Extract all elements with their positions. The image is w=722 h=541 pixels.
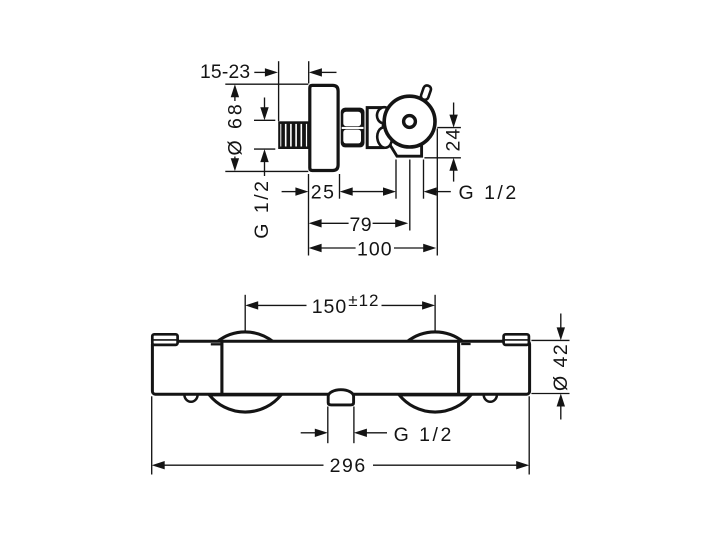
escutcheon (wall plate, side view) [310,85,338,170]
dimension 296 [151,396,153,474]
svg-text:100: 100 [357,239,393,261]
dimension line 15-23 [254,71,266,73]
svg-text:G 1/2: G 1/2 [394,424,454,446]
handle hub dot [404,116,416,128]
left divider [220,341,223,394]
dimension 79 [309,219,322,227]
left screw bump [184,395,197,402]
outlet nipple (front view) [328,390,353,405]
handle ring (side view) [384,96,435,147]
dimension 100 [309,244,322,252]
dimension 25 [282,191,297,193]
svg-text:Ø 68: Ø 68 [224,101,246,155]
mixer bar body [152,341,529,394]
svg-text:296: 296 [330,455,367,477]
left handle top arc [217,332,274,342]
left tab [152,334,177,345]
dimension Ø42 [560,314,562,329]
svg-text:25: 25 [311,181,336,203]
svg-text:Ø 42: Ø 42 [550,343,572,391]
right handle skirt arc [399,395,471,412]
svg-text:15-23: 15-23 [200,62,250,83]
right divider [457,341,460,394]
outlet extension lines [327,407,329,444]
right handle top arc [407,332,464,342]
svg-text:24: 24 [442,128,464,152]
connection nut [341,108,365,148]
dimension G 1/2 outlet (side view) [424,187,437,195]
svg-text:79: 79 [349,214,372,236]
handle lever stub [420,85,432,101]
svg-text:150±12: 150±12 [312,291,380,318]
extension line wall-max [308,61,310,83]
right screw bump [484,395,497,402]
svg-text:G 1/2: G 1/2 [459,182,519,204]
svg-text:G 1/2: G 1/2 [251,178,273,238]
dimension G 1/2 inlet thread [260,107,268,120]
grip petal bottom [376,126,393,148]
valve body [367,108,383,148]
dimension 24 [453,103,455,116]
dimension Ø68 [231,84,239,97]
handle skirt (side view) [383,126,422,156]
right tab [504,334,529,345]
dimension G 1/2 outlet (front view) [301,432,316,434]
right detail dash [461,343,470,345]
extension lines below side view [308,174,310,256]
inlet thread (hatched pipe) [278,121,308,149]
left handle skirt arc [209,395,281,412]
extension line wall-min [278,61,280,121]
dimension 150±12 [244,295,246,331]
left detail dash [211,343,221,345]
grip petal top [376,106,393,124]
